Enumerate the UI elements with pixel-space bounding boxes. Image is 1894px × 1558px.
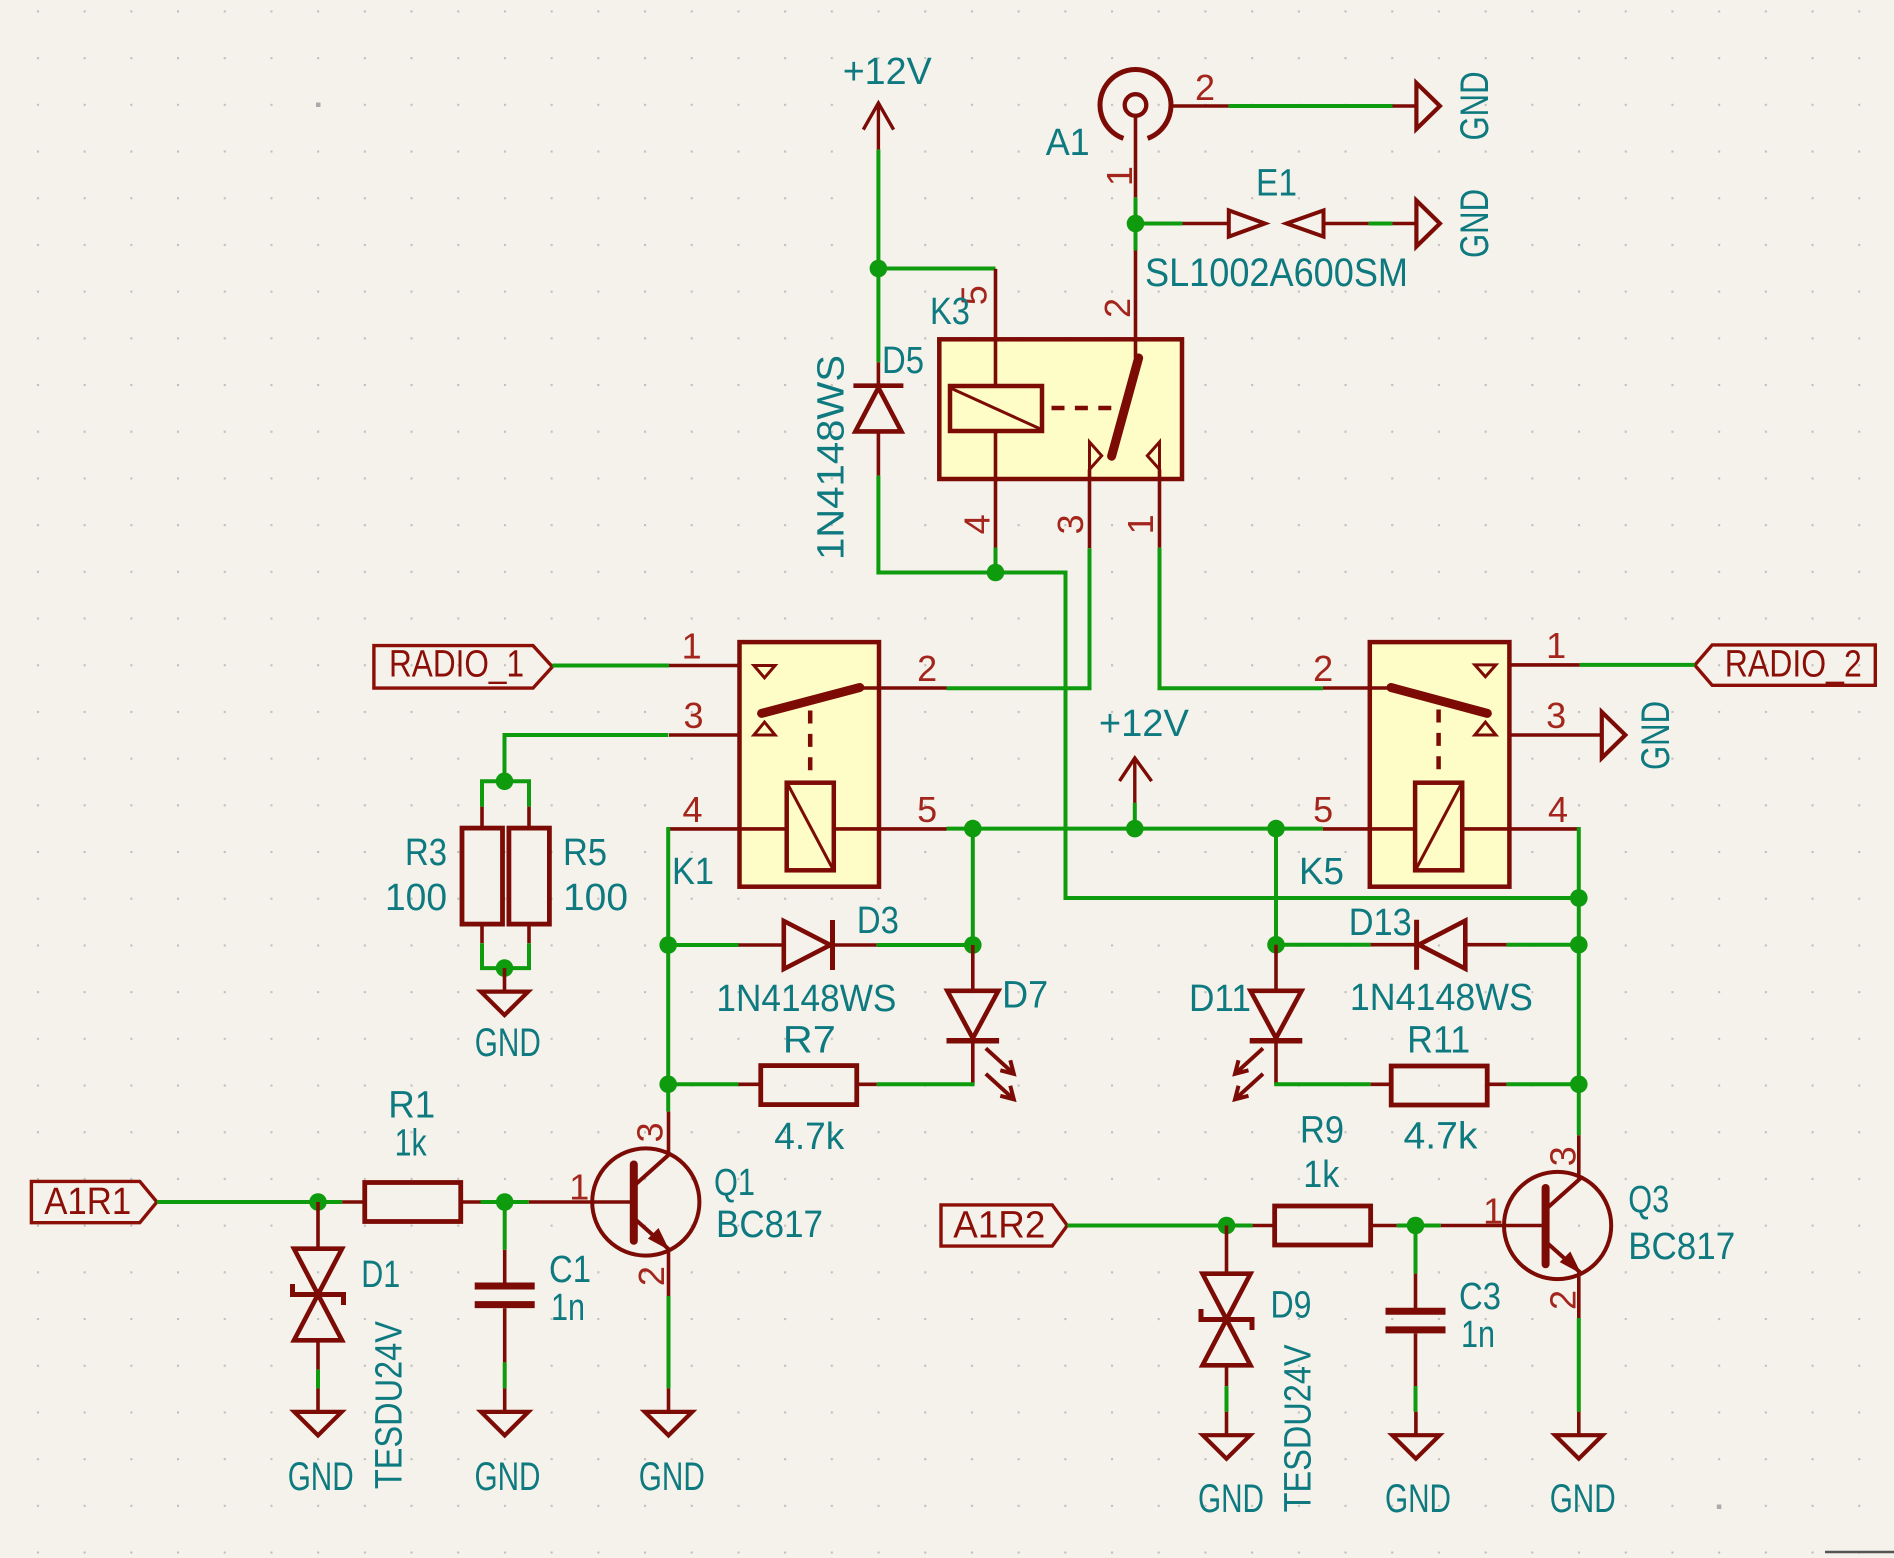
junction R7 left / Q1 collector: [659, 1076, 677, 1094]
K1 pin 3: [669, 733, 740, 737]
junction D3 anode: [659, 936, 677, 954]
svg-text:C3: C3: [1459, 1276, 1501, 1318]
K5 contact pin 1: [1475, 665, 1496, 677]
pin 1 of A1: [1134, 116, 1138, 198]
pin 2 of A1: [1171, 104, 1229, 108]
K3 pin numbers: [954, 285, 1161, 534]
resistor R11 4.7k: [1371, 1020, 1507, 1158]
K3 coil: [950, 386, 1042, 431]
svg-text:1k: 1k: [395, 1123, 428, 1165]
K3 dashed link: [1052, 406, 1115, 411]
transistor Q1 BC817: [529, 1112, 823, 1296]
wire +12V down to junction: [876, 150, 880, 269]
K3 switch arm: [1112, 358, 1139, 456]
svg-text:2: 2: [1097, 298, 1138, 318]
svg-text:1: 1: [1120, 514, 1161, 534]
wire K1 pin5 down to D3: [971, 829, 975, 945]
svg-text:D13: D13: [1349, 902, 1412, 944]
svg-text:3: 3: [1542, 1146, 1583, 1166]
LED D11: [1189, 945, 1302, 1100]
ground symbol (C1): [475, 1388, 541, 1499]
global label A1R1: [31, 1181, 156, 1223]
wire R1 to Q1 base: [481, 1200, 529, 1204]
wire D5 to junction K3 pin4: [878, 476, 995, 573]
K1 dashed link: [808, 711, 813, 773]
wire +12V stem: [1133, 803, 1137, 829]
wire junction to R7: [668, 1082, 738, 1086]
svg-text:GND: GND: [1453, 72, 1497, 141]
svg-text:A1R1: A1R1: [44, 1181, 131, 1223]
Q1 pin numbers: [569, 1122, 672, 1286]
svg-text:GND: GND: [288, 1455, 354, 1499]
svg-text:1: 1: [1546, 625, 1566, 666]
diode D5 1N4148WS: [811, 340, 924, 560]
svg-text:GND: GND: [475, 1021, 541, 1065]
K5 pin 3: [1509, 733, 1601, 737]
wire junction to E1: [1136, 222, 1183, 226]
wire E1 to GND: [1369, 222, 1393, 226]
svg-text:1: 1: [1099, 166, 1140, 186]
capacitor C1 1n: [475, 1202, 591, 1362]
ground symbol (D9): [1198, 1412, 1264, 1521]
ground symbol (K5 pin3): [1602, 701, 1678, 770]
junction D13 right: [1570, 936, 1588, 954]
resistor R1 1k: [342, 1085, 480, 1222]
svg-text:2: 2: [631, 1266, 672, 1286]
wire K5 pin1 to RADIO_2: [1580, 663, 1695, 667]
wire RADIO_1 to K1 pin1: [552, 664, 669, 668]
svg-text:RADIO_1: RADIO_1: [389, 644, 524, 686]
wire R11 to right chain: [1507, 1082, 1579, 1086]
wire to R5 top: [505, 781, 530, 806]
global label RADIO_2: [1695, 644, 1876, 686]
svg-text:K1: K1: [672, 851, 714, 893]
spark gap E1: [1145, 163, 1408, 296]
wire K3 pin3 down to K1 pin2: [947, 548, 1090, 688]
wire right chain vertical: [1577, 898, 1581, 1135]
svg-text:D11: D11: [1189, 978, 1251, 1020]
svg-text:K5: K5: [1299, 851, 1344, 893]
wire junction right and down to rail: [996, 573, 1579, 899]
wire K1 pin3 to R3/R5: [505, 735, 669, 781]
svg-text:1: 1: [569, 1167, 589, 1208]
sheet border fragment: [1825, 1551, 1894, 1554]
wire R3 bottom to junction: [482, 943, 505, 968]
wire Q3 emitter to GND: [1577, 1318, 1581, 1412]
K3 pin 5: [994, 269, 998, 386]
svg-text:1: 1: [682, 626, 702, 667]
svg-text:+12V: +12V: [843, 51, 933, 93]
svg-text:BC817: BC817: [716, 1204, 823, 1246]
wire D11 to R11: [1274, 1082, 1370, 1086]
svg-text:R11: R11: [1407, 1020, 1470, 1062]
relay K1: [740, 642, 880, 887]
wire D13 cathode to right chain: [1507, 943, 1579, 947]
svg-text:K3: K3: [930, 291, 970, 333]
junction R3/R5 bottom: [496, 959, 514, 977]
svg-text:2: 2: [917, 648, 937, 689]
K1 contact pin 3: [754, 722, 775, 735]
svg-text:GND: GND: [639, 1455, 705, 1499]
K3 contact pin 3: [1090, 442, 1102, 469]
wire K5 pin4 down: [1577, 827, 1581, 898]
svg-text:D9: D9: [1271, 1285, 1312, 1327]
svg-text:A1R2: A1R2: [953, 1205, 1045, 1247]
wire R5 bottom to junction: [505, 943, 530, 968]
svg-text:1k: 1k: [1303, 1154, 1340, 1196]
svg-text:R9: R9: [1300, 1110, 1344, 1152]
svg-text:D1: D1: [361, 1254, 400, 1296]
junction A1 / E1 / K3 pin2: [1127, 215, 1145, 233]
svg-text:1n: 1n: [551, 1287, 585, 1329]
svg-text:BC817: BC817: [1628, 1226, 1735, 1268]
resistor R3 100: [385, 807, 503, 944]
svg-text:3: 3: [1050, 514, 1091, 534]
wire D7 to R7: [877, 1082, 975, 1086]
relay K3: [939, 339, 1182, 479]
K1 contact pin 1: [754, 666, 775, 678]
svg-text:R3: R3: [405, 832, 447, 874]
wire K1 pin4 down to D3: [666, 827, 670, 945]
junction +12V / D5 / K3 pin5: [870, 260, 888, 278]
junction K5 pin5: [1267, 820, 1285, 838]
K1 switch arm: [762, 688, 860, 714]
global label A1R2: [941, 1205, 1067, 1247]
svg-text:TESDU24V: TESDU24V: [1277, 1344, 1319, 1513]
junction K1 pin5: [964, 820, 982, 838]
K5 pin numbers: [1313, 625, 1568, 830]
wire A1R1 to R1: [157, 1200, 342, 1204]
K1 pin 1: [669, 664, 740, 668]
svg-text:GND: GND: [1198, 1477, 1264, 1521]
K1 pin numbers: [682, 626, 938, 830]
power symbol +12V mid: [1099, 703, 1190, 803]
svg-text:4: 4: [682, 789, 702, 830]
svg-text:3: 3: [1546, 695, 1566, 736]
K1 pin 5 + coil line: [834, 827, 947, 831]
K3 pin 4: [994, 431, 998, 548]
svg-text:TESDU24V: TESDU24V: [369, 1321, 411, 1490]
svg-text:3: 3: [630, 1122, 671, 1142]
K3 pin 3 line: [1088, 469, 1092, 548]
global label RADIO_1: [374, 644, 553, 689]
wire junction to K3 pin5 column: [878, 267, 995, 271]
wire A1 pin2 to GND: [1229, 104, 1393, 108]
TVS diode D9 TESDU24V: [1201, 1226, 1319, 1513]
power symbol +12V top: [843, 51, 933, 150]
wire K5 pin5 down to D13: [1274, 829, 1278, 945]
wire Q1 emitter to GND: [667, 1296, 671, 1388]
ground symbol (E1): [1393, 189, 1497, 258]
svg-text:E1: E1: [1256, 163, 1297, 205]
K3 pin 2: [1134, 251, 1138, 359]
svg-text:R1: R1: [388, 1085, 435, 1127]
ground symbol (C3): [1385, 1412, 1451, 1521]
svg-text:5: 5: [917, 789, 937, 830]
Q3 pin numbers: [1483, 1146, 1583, 1310]
K3 pin 1 line: [1158, 469, 1162, 547]
ground symbol (A1 pin2): [1393, 72, 1497, 141]
svg-text:C1: C1: [549, 1249, 591, 1291]
svg-text:1N4148WS: 1N4148WS: [716, 978, 896, 1020]
svg-text:R7: R7: [783, 1020, 836, 1062]
wire A1 pin1 to junction: [1134, 197, 1138, 250]
K5 switch arm: [1391, 688, 1487, 714]
K5 pin 1: [1509, 663, 1579, 667]
K5 coil: [1415, 783, 1462, 871]
svg-text:GND: GND: [1385, 1477, 1451, 1521]
K1 pin 4 + coil line: [668, 827, 786, 831]
wire +12V rail: [947, 827, 1323, 831]
antenna connector A1: [1046, 70, 1171, 164]
wire to R3 top: [482, 781, 505, 806]
wire K3 pin4 down: [994, 548, 998, 573]
wire junction down to D5 anode: [876, 269, 880, 363]
diode D3 1N4148WS: [716, 900, 899, 1020]
junction R9 / C3 / Q3: [1407, 1217, 1425, 1235]
K5 contact pin 3: [1475, 722, 1496, 735]
K5 pin 2: [1323, 686, 1391, 690]
svg-text:A1: A1: [1046, 122, 1090, 164]
svg-text:+12V: +12V: [1099, 703, 1190, 745]
K3 contact pin 1: [1147, 442, 1159, 469]
svg-text:100: 100: [563, 877, 628, 919]
K5 pin 5 + coil line: [1323, 827, 1415, 831]
junction A1R2 / D9 / R9: [1218, 1217, 1236, 1235]
wire junction down to Q1 collector: [666, 1084, 670, 1111]
svg-text:RADIO_2: RADIO_2: [1725, 644, 1862, 686]
wire C3 to GND: [1414, 1386, 1418, 1412]
svg-text:SL1002A600SM: SL1002A600SM: [1145, 251, 1408, 295]
svg-text:1N4148WS: 1N4148WS: [811, 355, 853, 560]
svg-text:4.7k: 4.7k: [1404, 1116, 1479, 1158]
K5 pin 4 + coil line: [1462, 827, 1580, 831]
TVS diode D1 TESDU24V: [293, 1202, 411, 1489]
svg-text:R5: R5: [563, 832, 607, 874]
junction A1R1 / D1 / R1: [309, 1193, 327, 1211]
wire K3 pin1 down to K5 pin2: [1160, 548, 1323, 689]
svg-text:GND: GND: [1453, 189, 1497, 258]
junction +12V rail: [1126, 820, 1144, 838]
svg-text:4.7k: 4.7k: [774, 1116, 845, 1158]
svg-text:Q3: Q3: [1628, 1179, 1669, 1221]
svg-text:Q1: Q1: [714, 1162, 755, 1204]
svg-text:4: 4: [957, 514, 998, 534]
junction D3 cathode / D7: [964, 936, 982, 954]
svg-text:GND: GND: [1634, 701, 1678, 770]
junction R11 right / Q3 collector: [1570, 1076, 1588, 1094]
K5 dashed link: [1436, 710, 1441, 773]
svg-text:2: 2: [1313, 648, 1333, 689]
svg-text:100: 100: [385, 877, 447, 919]
relay K5: [1370, 642, 1510, 887]
wire junction to D3: [668, 943, 738, 947]
K1 coil: [787, 783, 834, 871]
wire junction to D13: [1276, 943, 1371, 947]
wire D1 to GND: [316, 1370, 320, 1389]
resistor R7 4.7k: [739, 1020, 877, 1158]
ground symbol (D1): [288, 1388, 354, 1499]
junction R1 / C1 / Q1: [496, 1193, 514, 1211]
diode D13 1N4148WS: [1349, 902, 1533, 1019]
resistor R9 1k: [1253, 1110, 1397, 1245]
wire A1R2 to R9: [1067, 1224, 1252, 1228]
resistor R5 100: [509, 807, 628, 944]
LED D7: [947, 945, 1049, 1099]
svg-text:2: 2: [1542, 1290, 1583, 1310]
svg-text:5: 5: [1313, 789, 1333, 830]
wire C1 to GND: [503, 1362, 507, 1388]
svg-text:2: 2: [1195, 67, 1215, 108]
junction R3/R5 top: [496, 773, 514, 791]
svg-text:3: 3: [683, 695, 703, 736]
svg-text:GND: GND: [1550, 1477, 1616, 1521]
svg-text:4: 4: [1548, 789, 1568, 830]
junction D13 / D11: [1267, 936, 1285, 954]
ground symbol (Q3): [1550, 1412, 1616, 1521]
ground symbol (R3/R5): [475, 968, 541, 1065]
wire junction down to left chain: [666, 945, 670, 1084]
transistor Q3 BC817: [1441, 1135, 1735, 1318]
ground symbol (Q1): [639, 1388, 705, 1499]
junction right chain top: [1570, 889, 1588, 907]
capacitor C3 1n: [1386, 1226, 1502, 1387]
svg-text:1: 1: [1483, 1191, 1503, 1232]
wire R9 to Q3 base: [1397, 1224, 1441, 1228]
svg-text:GND: GND: [475, 1455, 541, 1499]
svg-text:D7: D7: [1002, 974, 1048, 1016]
K1 pin 2: [860, 686, 947, 690]
junction K3 pin4 / D5: [987, 564, 1005, 582]
svg-text:1n: 1n: [1461, 1314, 1495, 1356]
svg-text:1N4148WS: 1N4148WS: [1350, 977, 1533, 1019]
wire D3 cathode to junction: [877, 943, 973, 947]
svg-text:D3: D3: [857, 900, 899, 942]
svg-text:D5: D5: [882, 340, 924, 382]
wire D9 to GND: [1225, 1386, 1229, 1412]
